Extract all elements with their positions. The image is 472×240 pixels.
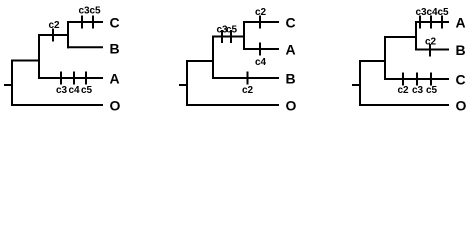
svg-text:c5: c5 xyxy=(426,85,438,96)
svg-text:C: C xyxy=(286,15,296,31)
tree 1 node ((C,B),A) vertical xyxy=(38,34,40,79)
tree 3 root vertical xyxy=(359,61,361,107)
svg-text:B: B xyxy=(456,42,466,58)
tree 1 tick c5 on branch to C xyxy=(92,16,94,29)
tree 2 branch to O xyxy=(186,104,279,106)
tree 1 branch to C xyxy=(67,21,103,23)
tree 2 branch to A xyxy=(243,48,279,50)
svg-text:c2: c2 xyxy=(255,7,267,18)
svg-text:c2: c2 xyxy=(242,85,254,96)
tree 2 root vertical xyxy=(186,60,188,106)
tree 3 tick c4 on branch to A xyxy=(430,16,432,29)
svg-text:A: A xyxy=(110,71,120,87)
tree 1 tick c4 on branch to A xyxy=(73,72,75,85)
svg-text:O: O xyxy=(286,98,297,114)
svg-text:c3: c3 xyxy=(415,7,427,18)
tree 3 branch to A xyxy=(415,21,449,23)
tree 1 branch to O xyxy=(11,104,103,106)
svg-text:c5: c5 xyxy=(437,7,449,18)
tree 1 tick c5 on branch to A xyxy=(85,72,87,85)
svg-text:c5: c5 xyxy=(89,6,101,17)
tree 3 branch to B xyxy=(415,49,449,51)
tree 3 tick c2 on branch to C xyxy=(402,73,404,86)
tree 2 branch to (C,A) xyxy=(213,36,244,38)
tree 3 node (A,B) vertical xyxy=(415,21,417,51)
tree 2 node (C,A) vertical xyxy=(243,21,245,50)
svg-text:c3: c3 xyxy=(56,85,68,96)
svg-text:O: O xyxy=(456,98,467,114)
tree 3 tick c5 on branch to C xyxy=(430,73,432,86)
tree 2 root stub xyxy=(179,84,187,86)
tree 1 tick c3 on branch to C xyxy=(81,16,83,29)
tree 3 node ((A,B),C) vertical xyxy=(384,36,386,80)
tree 2 tick c2 on branch to C xyxy=(259,16,261,29)
svg-text:B: B xyxy=(286,71,296,87)
svg-text:c5: c5 xyxy=(226,25,238,36)
tree 2 tick c5 on branch to (C,A) xyxy=(230,30,232,43)
tree 2 branch to C xyxy=(243,21,279,23)
tree 1 root vertical xyxy=(11,60,13,107)
tree 3 inner branch to ((A,B),C) xyxy=(359,60,385,62)
tree 2 inner branch to ((C,A),B) xyxy=(186,60,213,62)
tree 3 tick c5 on branch to A xyxy=(441,16,443,29)
tree 3 tick c2 on branch to B xyxy=(429,44,431,57)
tree 3 branch to C xyxy=(385,78,449,80)
tree 1 branch to (C,B) xyxy=(39,34,68,36)
svg-text:c4: c4 xyxy=(255,57,267,68)
svg-text:c5: c5 xyxy=(81,85,93,96)
svg-text:c4: c4 xyxy=(68,85,80,96)
svg-text:B: B xyxy=(110,41,120,57)
svg-text:c2: c2 xyxy=(397,85,409,96)
tree 1 node (C,B) vertical xyxy=(67,21,69,48)
tree 2 node ((C,A),B) vertical xyxy=(212,36,214,80)
tree 2 branch to B xyxy=(213,77,279,79)
svg-text:c2: c2 xyxy=(48,20,60,31)
svg-text:c2: c2 xyxy=(425,37,437,48)
tree 1 branch to A xyxy=(39,77,103,79)
svg-text:C: C xyxy=(110,15,120,31)
tree 3 tick c3 on branch to A xyxy=(419,16,421,29)
tree 3 branch to (A,B) xyxy=(385,36,416,38)
svg-text:c3: c3 xyxy=(412,85,424,96)
tree 2 tick c3 on branch to (C,A) xyxy=(221,30,223,43)
tree 1 branch to B xyxy=(67,46,103,48)
tree 3 root stub xyxy=(352,84,360,86)
tree 1 tick c2 on branch to (C,B) xyxy=(52,29,54,42)
tree 1 inner branch to ((C,B),A) xyxy=(11,60,39,62)
tree 2 tick c4 on branch to A xyxy=(259,43,261,56)
svg-text:A: A xyxy=(286,42,296,58)
svg-text:c4: c4 xyxy=(426,7,438,18)
tree 3 tick c3 on branch to C xyxy=(416,73,418,86)
svg-text:A: A xyxy=(456,15,466,31)
svg-text:C: C xyxy=(456,72,466,88)
tree 2 tick c2 on branch to B xyxy=(247,72,249,85)
svg-text:O: O xyxy=(110,98,121,114)
tree 1 tick c3 on branch to A xyxy=(60,72,62,85)
svg-text:c3: c3 xyxy=(78,6,90,17)
tree 1 root stub xyxy=(4,84,12,86)
tree 3 branch to O xyxy=(359,104,449,106)
